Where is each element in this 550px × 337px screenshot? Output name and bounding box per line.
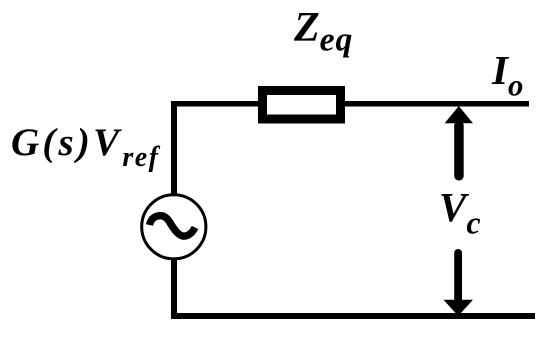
arrow up (Vc +) [445, 106, 473, 123]
ac source V1 sine wave [150, 216, 196, 236]
wire: left vertical upper [171, 101, 177, 196]
label Zeq [294, 4, 353, 52]
arrow down (Vc -) [454, 249, 462, 303]
ac source V1 circle [142, 195, 206, 259]
label Io [492, 46, 523, 94]
label Vc [439, 183, 481, 231]
wire: top horizontal [171, 101, 529, 107]
impedance Zeq box [263, 91, 341, 120]
wire: bottom horizontal [171, 313, 535, 319]
wire: left vertical lower [171, 257, 177, 319]
label G(s)Vref [11, 120, 160, 165]
